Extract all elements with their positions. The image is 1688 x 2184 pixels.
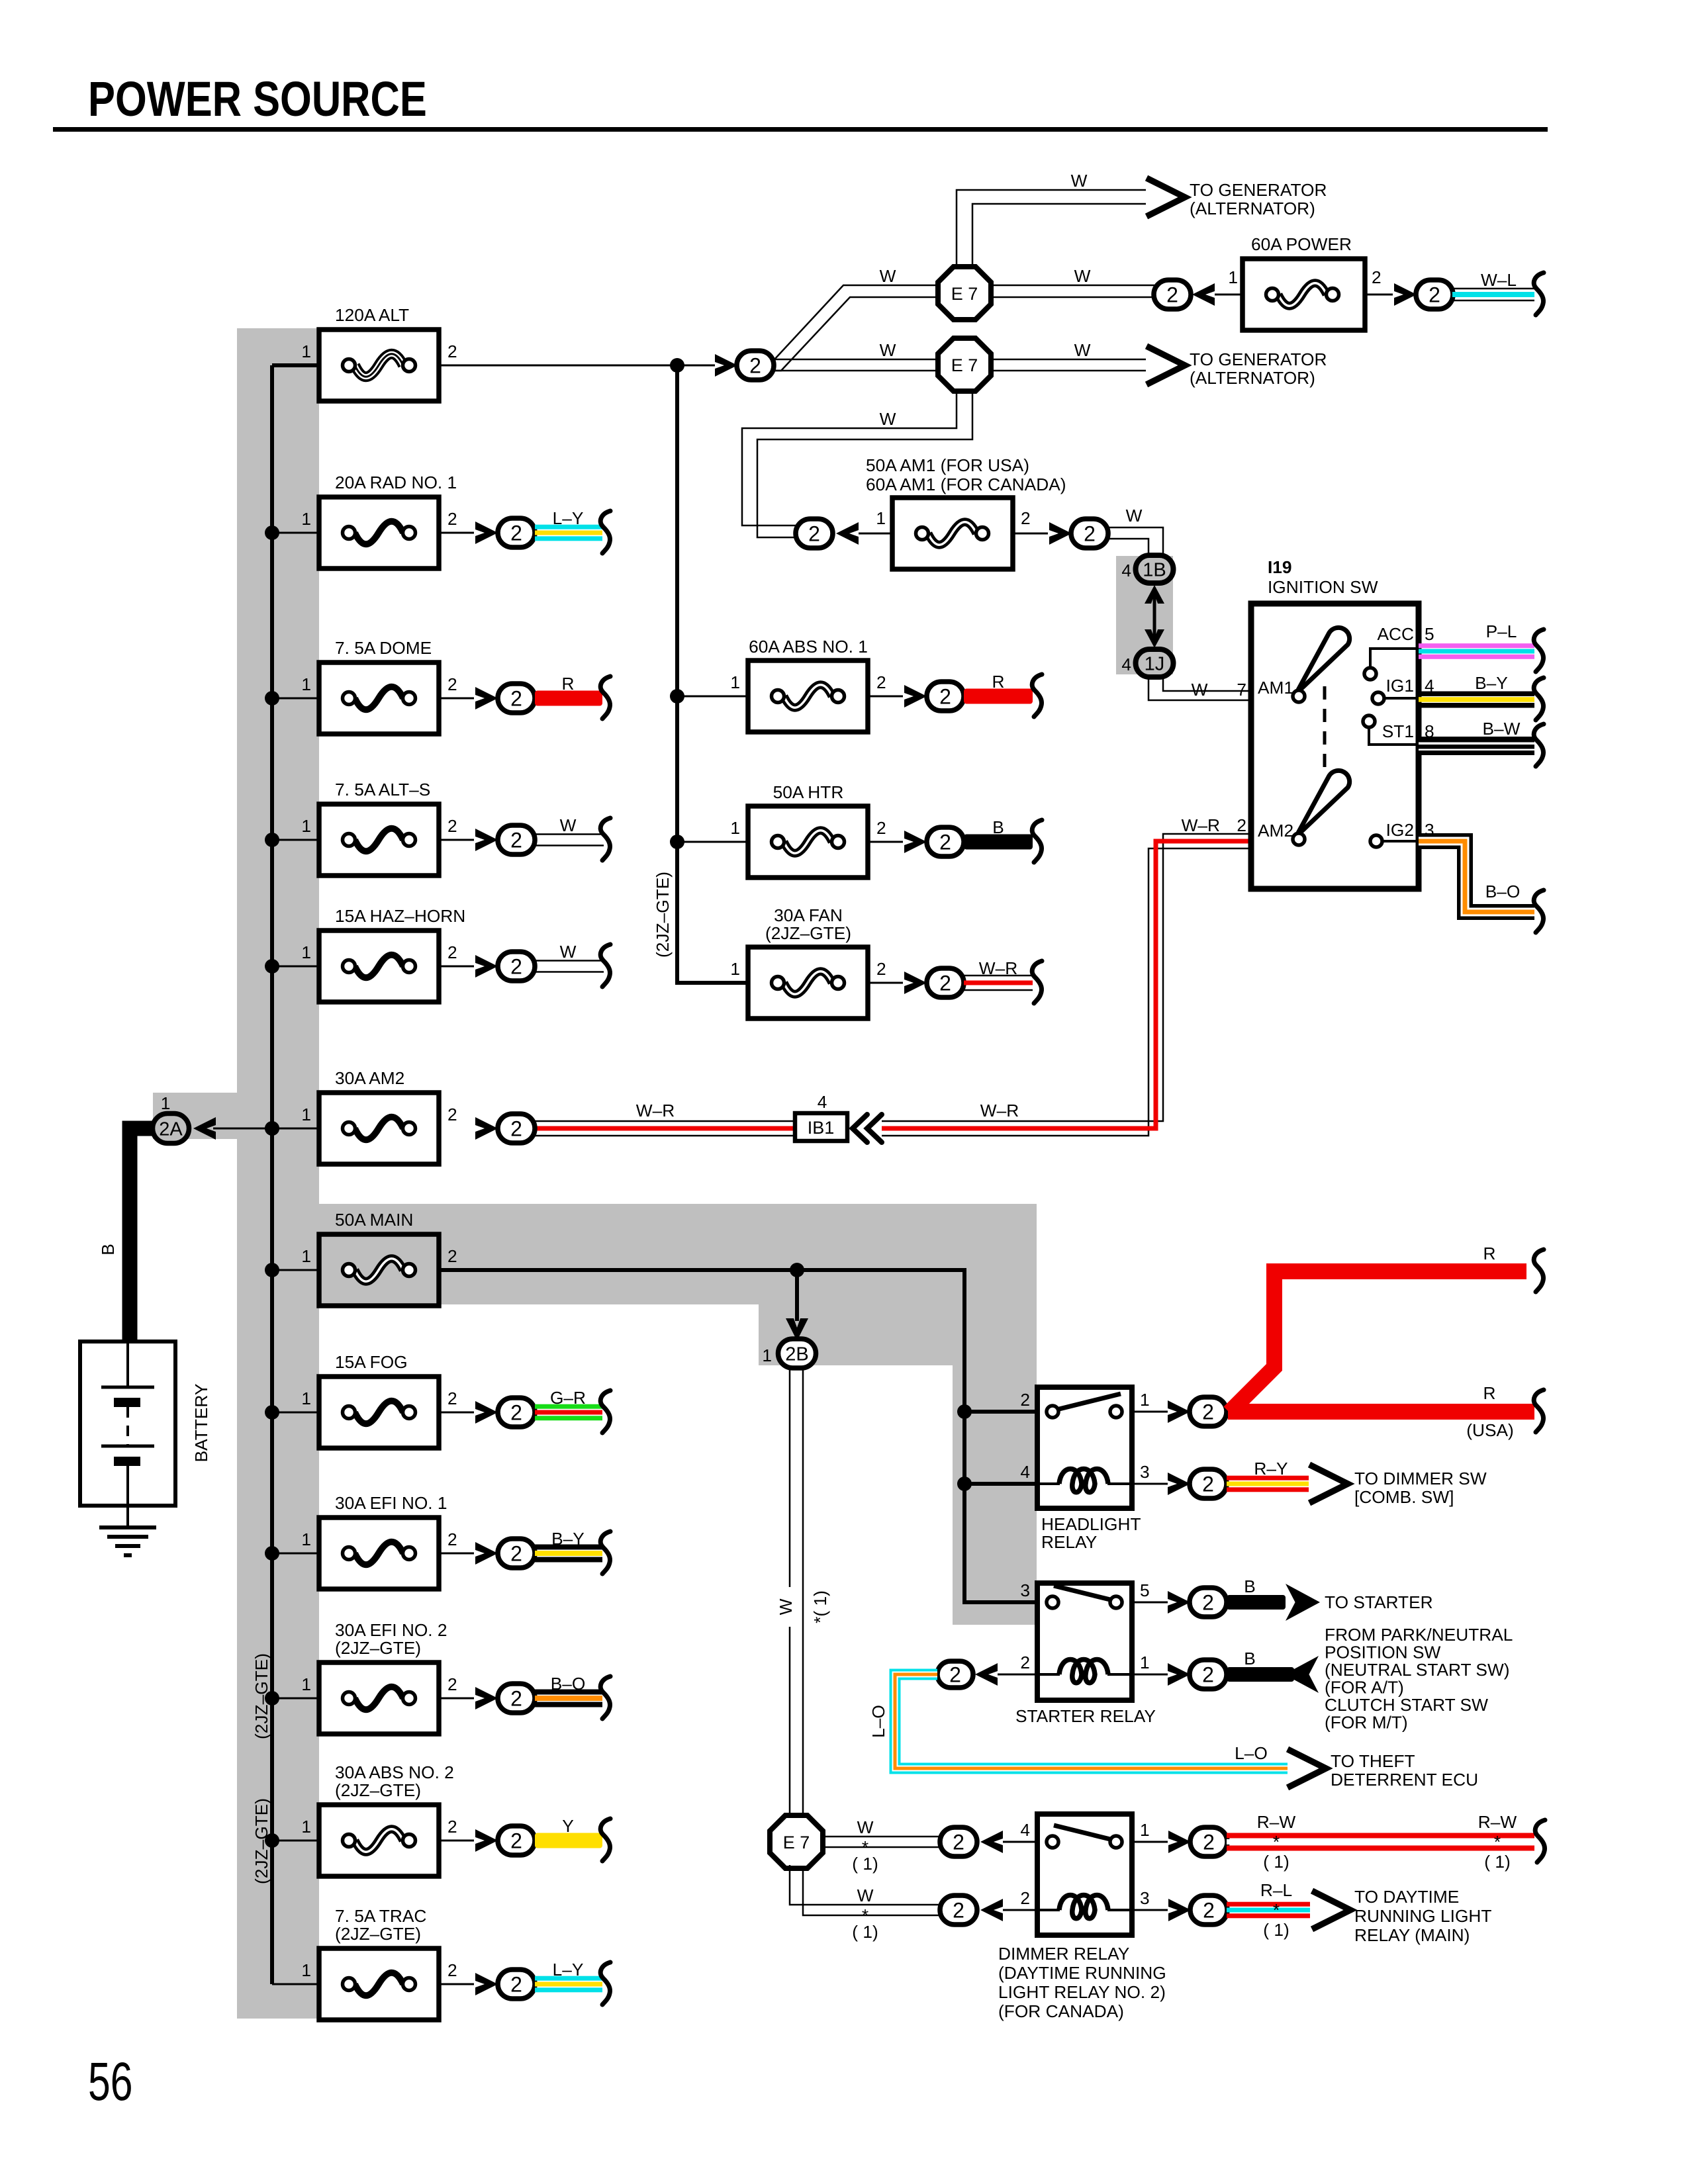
label (2JZ-GTE) rotated near FAN (653, 872, 673, 958)
label pin2 30A EFI NO. 2 (447, 1674, 457, 1694)
wire end curl (R-W) (1535, 1820, 1545, 1862)
svg-text:DETERRENT ECU: DETERRENT ECU (1331, 1770, 1478, 1790)
svg-text:1B: 1B (1143, 559, 1166, 580)
label B-W (1483, 719, 1521, 739)
svg-text:2: 2 (510, 1117, 522, 1141)
wire bus junction 30A FAN (677, 982, 748, 983)
wire W-R AM2 to IB1 (535, 1121, 795, 1136)
svg-text:W: W (880, 266, 896, 286)
label pin1 50A HTR (730, 818, 740, 838)
svg-text:R–W: R–W (1478, 1812, 1517, 1832)
label BATTERY (191, 1384, 211, 1463)
svg-text:IG2: IG2 (1386, 820, 1414, 840)
label R-Y (1254, 1459, 1288, 1479)
svg-text:2: 2 (510, 1687, 522, 1711)
svg-text:B–W: B–W (1483, 719, 1521, 739)
label pin 8 (ST1) (1425, 721, 1434, 741)
svg-text:56: 56 (88, 2052, 132, 2112)
label pin1 120A ALT (301, 341, 311, 361)
headlight relay body (1037, 1387, 1132, 1508)
label pin1 (headlight) (1140, 1390, 1150, 1410)
connector 2 (AM1 pin1) (796, 519, 833, 548)
svg-text:2: 2 (953, 1899, 964, 1923)
junction dot headlight pin4 (957, 1477, 972, 1491)
svg-text:2: 2 (953, 1831, 964, 1854)
connector 2 (dimmer pin2) (940, 1895, 977, 1925)
label 50A HTR (773, 782, 844, 802)
arrow 7. 5A TRAC output (475, 1973, 498, 1995)
svg-text:1: 1 (1140, 1390, 1150, 1410)
arrow into connector (AM1 pin1) (836, 522, 859, 545)
wire W–R (30A FAN) (964, 976, 1033, 990)
svg-text:4: 4 (818, 1092, 827, 1112)
wire W pair AM1 to 1B (1107, 527, 1163, 555)
connector E7 lower (938, 338, 991, 391)
svg-text:4: 4 (1121, 561, 1131, 580)
connector 2 (dimmer pin4) (940, 1827, 977, 1856)
svg-text:B–Y: B–Y (1475, 673, 1508, 693)
wire R (7. 5A DOME) (535, 691, 602, 706)
label pin1 (dimmer) (1140, 1820, 1150, 1840)
svg-text:RELAY (MAIN): RELAY (MAIN) (1354, 1925, 1470, 1945)
wire W vertical from 2B (left) (789, 1366, 791, 1819)
wire 15A FOG output (439, 1412, 474, 1414)
wire 50A HTR output (869, 841, 903, 843)
connector E7 bottom (770, 1815, 823, 1868)
wire pair E7 upper to 60A POWER connector (991, 285, 1154, 297)
wire R thick (upper branch) (1229, 1271, 1526, 1412)
wire R thick (USA branch) (1228, 1404, 1534, 1420)
label L–Y (7. 5A TRAC) (553, 1960, 584, 1979)
ignition contact IG1 (1372, 692, 1419, 704)
connector 2 (ALT output) (737, 351, 774, 380)
wire end curl (W-L) (1534, 273, 1544, 315)
svg-text:30A EFI NO. 1: 30A EFI NO. 1 (335, 1493, 447, 1513)
label R-W * (1) left (1257, 1812, 1296, 1872)
wire end curl (P-L) (1534, 629, 1544, 672)
label 15A FOG (335, 1352, 408, 1372)
wire pair E7 upper to generator (957, 190, 1146, 269)
open arrow TO GENERATOR (mid) (1147, 346, 1185, 385)
wire W pair 1J to ignition AM1 (1149, 677, 1251, 700)
label pin1 30A AM2 (301, 1105, 311, 1124)
svg-text:2: 2 (1020, 1888, 1030, 1908)
svg-text:(2JZ–GTE): (2JZ–GTE) (335, 1638, 421, 1658)
connector 1J (1136, 649, 1174, 677)
wire 30A EFI NO. 2 output (439, 1698, 474, 1700)
wire B–Y (30A EFI NO. 1) (535, 1545, 602, 1563)
label *(1) rotated (2B wire) (810, 1590, 830, 1623)
wire end curl (30A EFI NO. 1) (600, 1531, 610, 1574)
label Y (30A ABS NO. 2) (562, 1816, 574, 1836)
svg-text:1: 1 (301, 674, 311, 694)
wire bus junction 30A EFI NO. 2 (265, 1691, 319, 1706)
label W–R (30A FAN) (979, 958, 1017, 978)
label TO GENERATOR (mid) (1190, 349, 1327, 388)
svg-text:( 1): ( 1) (1263, 1920, 1289, 1940)
svg-text:1: 1 (301, 816, 311, 836)
label W-R (AM2) (636, 1101, 675, 1120)
label HEADLIGHT RELAY (1041, 1514, 1141, 1552)
svg-text:1: 1 (301, 1388, 311, 1408)
label pin 2 (ignition AM2) (1237, 815, 1246, 835)
arrow dimmer pin4 (980, 1831, 1003, 1853)
wire R-L (1227, 1902, 1310, 1919)
fuse 50A AM1 (892, 498, 1013, 569)
svg-text:TO THEFT: TO THEFT (1331, 1751, 1415, 1771)
wire L–Y (20A RAD NO. 1) (535, 525, 602, 541)
connector 2 (60A POWER pin2) (1416, 280, 1453, 309)
connector 2 (7. 5A DOME) (498, 684, 535, 713)
starter relay switch (1047, 1586, 1122, 1608)
label W (right of lower E7) (1074, 340, 1091, 360)
fuse 50A MAIN (319, 1234, 439, 1306)
label 120A ALT (335, 305, 409, 325)
svg-text:TO GENERATOR: TO GENERATOR (1190, 349, 1327, 369)
svg-text:Y: Y (562, 1816, 574, 1836)
harness shading band (2A connector row) (153, 1093, 319, 1139)
svg-text:TO DIMMER SW: TO DIMMER SW (1354, 1469, 1487, 1488)
ignition switch I19 body (1251, 604, 1419, 889)
connector 2 (30A EFI NO. 1) (498, 1539, 535, 1568)
label pin2 7. 5A DOME (447, 674, 457, 694)
svg-text:CLUTCH START SW: CLUTCH START SW (1325, 1695, 1488, 1715)
svg-text:*( 1): *( 1) (810, 1590, 830, 1623)
svg-text:1: 1 (301, 1105, 311, 1124)
svg-text:(ALTERNATOR): (ALTERNATOR) (1190, 199, 1315, 218)
svg-text:2: 2 (939, 831, 951, 854)
svg-text:AM1: AM1 (1258, 678, 1293, 698)
label pin3 (starter) (1020, 1580, 1030, 1600)
svg-text:1: 1 (301, 1674, 311, 1694)
starter relay coil (1037, 1660, 1132, 1683)
arrow dimmer pin3 (1168, 1899, 1191, 1921)
svg-text:W: W (1071, 171, 1088, 191)
big arrow TO STARTER (1286, 1584, 1320, 1621)
connector 2 (20A RAD NO. 1) (498, 518, 535, 547)
wire end curl (7. 5A ALT-S) (600, 818, 610, 860)
title underline (53, 127, 1548, 132)
svg-text:POWER SOURCE: POWER SOURCE (88, 72, 427, 127)
wire end curl (7. 5A TRAC) (600, 1962, 610, 2005)
svg-text:2: 2 (447, 1105, 457, 1124)
svg-text:2: 2 (1084, 522, 1096, 546)
svg-text:50A HTR: 50A HTR (773, 782, 844, 802)
svg-text:R: R (1483, 1383, 1496, 1403)
wire dimmer pin1 (1132, 1841, 1168, 1843)
wire bus to 2A (213, 1121, 279, 1136)
svg-text:ST1: ST1 (1382, 721, 1414, 741)
svg-text:2: 2 (876, 818, 886, 838)
wire 7. 5A TRAC output (439, 1983, 474, 1985)
wire R-Y (1227, 1476, 1309, 1492)
svg-text:DIMMER RELAY: DIMMER RELAY (998, 1944, 1129, 1964)
label pin 3 (IG2) (1425, 820, 1434, 840)
svg-text:POSITION SW: POSITION SW (1325, 1643, 1441, 1662)
wire end curl (B-W) (1534, 724, 1544, 766)
svg-text:*: * (1494, 1832, 1501, 1852)
label 7. 5A ALT-S (335, 780, 430, 799)
label pin2 (dimmer) (1020, 1888, 1030, 1908)
label pin2 20A RAD NO. 1 (447, 509, 457, 529)
wire bus junction 30A ABS NO. 2 (265, 1833, 319, 1848)
svg-text:4: 4 (1121, 655, 1131, 674)
wire pair E7 to dimmer pin2 (790, 1865, 939, 1915)
svg-text:E 7: E 7 (951, 284, 978, 304)
svg-text:R–L: R–L (1260, 1880, 1292, 1900)
svg-text:2: 2 (1202, 1473, 1214, 1496)
svg-text:IGNITION SW: IGNITION SW (1268, 577, 1378, 597)
label AM1 (1258, 678, 1293, 698)
arrow 30A EFI NO. 2 output (475, 1687, 498, 1709)
svg-text:TO DAYTIME: TO DAYTIME (1354, 1887, 1459, 1907)
svg-text:W–L: W–L (1481, 270, 1517, 290)
label B (from park) (1244, 1649, 1256, 1668)
label W (right of upper E7) (1074, 266, 1091, 286)
connector 2 (30A ABS NO. 2) (498, 1826, 535, 1855)
svg-text:(FOR M/T): (FOR M/T) (1325, 1713, 1408, 1733)
svg-text:RUNNING LIGHT: RUNNING LIGHT (1354, 1906, 1491, 1926)
arrow dimmer pin2 (980, 1899, 1003, 1921)
fuse 60A POWER (1243, 259, 1365, 330)
svg-text:W–R: W–R (979, 958, 1017, 978)
svg-text:2: 2 (447, 1388, 457, 1408)
wire Y (30A ABS NO. 2) (535, 1833, 602, 1848)
svg-text:W: W (880, 409, 896, 429)
svg-text:7. 5A DOME: 7. 5A DOME (335, 638, 432, 658)
wire dimmer pin2 (1003, 1909, 1037, 1911)
label 50A MAIN (335, 1210, 413, 1230)
svg-text:1: 1 (161, 1093, 171, 1113)
wire pair E7 lower down to AM1 connector (742, 389, 972, 537)
svg-text:(2JZ–GTE): (2JZ–GTE) (335, 1780, 421, 1800)
svg-text:( 1): ( 1) (852, 1854, 878, 1874)
fuse 30A EFI NO. 1 (319, 1518, 439, 1589)
open arrow TO GENERATOR (top) (1147, 178, 1185, 216)
svg-text:TO STARTER: TO STARTER (1325, 1592, 1433, 1612)
label pin2 (60A POWER) (1372, 267, 1382, 287)
wire 60A POWER pin1 (1215, 294, 1243, 296)
svg-text:1: 1 (1140, 1820, 1150, 1840)
open arrow TO THEFT (1288, 1749, 1326, 1788)
label pin 4 (1B) (1121, 561, 1131, 580)
label pin1 (60A POWER) (1228, 267, 1238, 287)
label L-O horizontal (1235, 1743, 1268, 1763)
svg-text:30A AM2: 30A AM2 (335, 1068, 404, 1088)
fuse 7. 5A ALT-S (319, 804, 439, 876)
wire dimmer pin4 (1003, 1841, 1037, 1843)
connector 2 (dimmer pin1) (1190, 1827, 1227, 1856)
dimmer relay coil (1037, 1895, 1132, 1919)
arrow starter pin5 (1168, 1591, 1190, 1614)
label W * (1) upper (dimmer pin4 wire) (852, 1817, 878, 1874)
label TO STARTER (1325, 1592, 1433, 1612)
fuse 120A ALT (319, 330, 439, 401)
svg-text:(ALTERNATOR): (ALTERNATOR) (1190, 368, 1315, 388)
label IGNITION SW (1268, 577, 1378, 597)
label TO DIMMER SW (1354, 1469, 1487, 1507)
label 7. 5A TRAC (335, 1906, 426, 1944)
svg-text:30A EFI NO. 2: 30A EFI NO. 2 (335, 1620, 447, 1640)
svg-text:( 1): ( 1) (1263, 1852, 1289, 1872)
label pin2 120A ALT (447, 341, 457, 361)
ignition key wedge AM1 (1293, 627, 1350, 702)
arrow 15A FOG output (475, 1401, 498, 1424)
svg-text:4: 4 (1020, 1820, 1030, 1840)
svg-text:W–R: W–R (980, 1101, 1019, 1120)
svg-text:ACC: ACC (1377, 624, 1414, 644)
wire 50A MAIN output main feed (439, 1263, 1037, 1602)
dimmer relay switch (1047, 1825, 1122, 1848)
ignition key wedge AM2 (1293, 770, 1350, 845)
wire 120A ALT to connector (439, 358, 715, 373)
fuse 7. 5A TRAC (319, 1948, 439, 2020)
svg-text:2: 2 (510, 955, 522, 979)
arrow into 2A (193, 1117, 216, 1140)
svg-text:HEADLIGHT: HEADLIGHT (1041, 1514, 1141, 1534)
svg-text:(FOR CANADA): (FOR CANADA) (998, 2001, 1124, 2021)
svg-text:2: 2 (447, 341, 457, 361)
svg-text:50A MAIN: 50A MAIN (335, 1210, 413, 1230)
arrow starter pin1 (1168, 1663, 1190, 1686)
wire headlight pin4 (964, 1482, 1037, 1486)
label B–Y (30A EFI NO. 1) (551, 1529, 585, 1549)
svg-text:2: 2 (510, 1542, 522, 1566)
wire end curl (B-Y) (1534, 678, 1544, 720)
svg-text:(2JZ–GTE): (2JZ–GTE) (765, 923, 851, 943)
svg-text:1: 1 (301, 341, 311, 361)
svg-text:IB1: IB1 (808, 1118, 835, 1138)
wire headlight pin2 (964, 1410, 1037, 1414)
double chevron (IB1) (853, 1115, 882, 1142)
svg-text:W–R: W–R (636, 1101, 675, 1120)
label W (left of upper E7) (880, 266, 896, 286)
open arrow TO DAYTIME (1312, 1891, 1350, 1929)
svg-text:1: 1 (301, 1960, 311, 1980)
label pin2 15A HAZ-HORN (447, 942, 457, 962)
connector 1B (1136, 555, 1174, 583)
label pin 4 (IG1) (1425, 676, 1434, 696)
wire middle bus vertical (677, 365, 748, 983)
label pin1 30A FAN (730, 959, 740, 979)
connector 2 (headlight pin3) (1190, 1469, 1227, 1498)
fuse 60A ABS NO. 1 (748, 660, 868, 732)
svg-text:7. 5A TRAC: 7. 5A TRAC (335, 1906, 426, 1926)
svg-text:TO GENERATOR: TO GENERATOR (1190, 180, 1327, 200)
arrow headlight pin3 (1168, 1473, 1190, 1495)
wire pair E7 lower to generator (991, 359, 1146, 371)
connector 2B (778, 1339, 816, 1368)
arrow into 2B (786, 1318, 808, 1341)
label pin1 7. 5A DOME (301, 674, 311, 694)
harness shading band (50A MAIN feed) (319, 1204, 1037, 1304)
double arrow 1B-1J (1145, 585, 1164, 648)
wire battery bus vertical (270, 365, 274, 1984)
svg-text:2: 2 (1203, 1899, 1215, 1923)
fuse 30A ABS NO. 2 (319, 1805, 439, 1876)
label W (top generator wire) (1071, 171, 1088, 191)
label B (50A HTR) (992, 817, 1004, 837)
wire bus junction 50A HTR (670, 835, 748, 849)
arrow 60A POWER output (1394, 283, 1417, 306)
label 60A AM1 (FOR CANADA) (866, 475, 1066, 494)
connector 2 (30A FAN) (927, 968, 964, 997)
dimmer relay body (1037, 1814, 1132, 1935)
svg-text:2: 2 (510, 1401, 522, 1425)
svg-text:2: 2 (1020, 1390, 1030, 1410)
svg-text:20A RAD NO. 1: 20A RAD NO. 1 (335, 473, 457, 492)
svg-text:1: 1 (730, 672, 740, 692)
svg-text:W: W (560, 815, 577, 835)
label pin1 (starter) (1140, 1653, 1150, 1672)
wire pair diagonal to E7 upper (773, 285, 939, 371)
label W (1J to AM1) (1192, 680, 1208, 700)
wire W (7. 5A ALT-S) (535, 835, 604, 846)
label W rotated (2B wire) (776, 1598, 796, 1615)
wire bus junction 50A MAIN (265, 1263, 319, 1277)
label pin4 (dimmer) (1020, 1820, 1030, 1840)
svg-text:3: 3 (1140, 1462, 1150, 1482)
connector 2 (60A POWER pin1) (1154, 280, 1191, 309)
svg-text:2: 2 (447, 816, 457, 836)
label TO THEFT DETERRENT ECU (1331, 1751, 1478, 1790)
arrow headlight pin1 (1168, 1400, 1190, 1423)
svg-text:(2JZ–GTE): (2JZ–GTE) (335, 1924, 421, 1944)
svg-text:7: 7 (1237, 680, 1246, 700)
label pin 5 (ACC) (1425, 624, 1434, 644)
svg-text:LIGHT RELAY NO. 2): LIGHT RELAY NO. 2) (998, 1982, 1166, 2002)
ignition contact ACC (1364, 649, 1419, 680)
label W (7. 5A ALT-S) (560, 815, 577, 835)
wire end curl (7. 5A DOME) (600, 676, 610, 719)
svg-text:E 7: E 7 (951, 355, 978, 375)
svg-text:2: 2 (939, 972, 951, 995)
arrow 30A FAN output (904, 972, 927, 994)
svg-text:*: * (1273, 1832, 1280, 1852)
wire bus junction 120A ALT (272, 365, 319, 367)
arrow 30A ABS NO. 2 output (475, 1829, 498, 1852)
svg-text:5: 5 (1140, 1580, 1150, 1600)
label 7. 5A DOME (335, 638, 432, 658)
fuse 30A EFI NO. 2 (319, 1662, 439, 1734)
label pin1 50A MAIN (301, 1246, 311, 1266)
label W-L (1481, 270, 1517, 290)
wire starter pin1 (1132, 1674, 1168, 1676)
label pin2 30A FAN (876, 959, 886, 979)
arrow 30A EFI NO. 1 output (475, 1542, 498, 1565)
label pin1 30A EFI NO. 1 (301, 1529, 311, 1549)
svg-text:1: 1 (730, 818, 740, 838)
wire headlight pin3 (1132, 1483, 1168, 1485)
label pin 4 (IB1) (818, 1092, 827, 1112)
wire L–Y (7. 5A TRAC) (535, 1976, 602, 1993)
svg-text:60A POWER: 60A POWER (1251, 234, 1352, 254)
wire end curl (B-O) (1534, 890, 1544, 933)
wire 20A RAD NO. 1 output (439, 532, 474, 534)
wire bus junction 7. 5A ALT-S (265, 833, 319, 847)
svg-text:1: 1 (301, 1529, 311, 1549)
svg-text:2: 2 (949, 1663, 961, 1687)
connector 2A (153, 1114, 189, 1144)
svg-text:2: 2 (447, 674, 457, 694)
wire B (50A HTR) (964, 835, 1033, 850)
label R (60A ABS NO. 1) (992, 672, 1005, 692)
label W-R (right segment) (980, 1101, 1019, 1120)
wire end curl (R upper) (1534, 1250, 1544, 1292)
wire R (60A ABS NO. 1) (964, 689, 1033, 704)
svg-text:1: 1 (1140, 1653, 1150, 1672)
wire pair E7 to dimmer pin4 (821, 1837, 939, 1847)
